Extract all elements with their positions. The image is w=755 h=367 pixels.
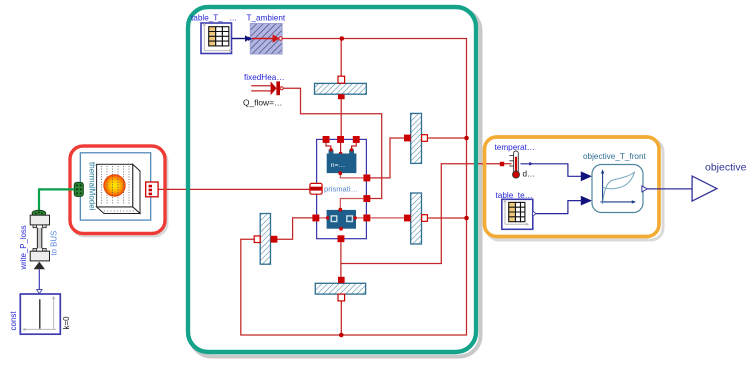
svg-text:write_P_loss: write_P_loss (19, 225, 28, 270)
svg-text:n=…: n=… (331, 162, 346, 169)
svg-text:objective_T_front: objective_T_front (583, 152, 647, 161)
svg-text:to BUS: to BUS (50, 231, 59, 256)
svg-text:Q_flow=…: Q_flow=… (243, 98, 282, 108)
svg-text:objective: objective (705, 162, 747, 174)
svg-text:const: const (9, 311, 18, 331)
svg-text:prismati…: prismati… (324, 185, 358, 194)
svg-text:table_T_ ...: table_T_ ... (191, 14, 237, 23)
svg-text:fixedHea…: fixedHea… (244, 73, 285, 82)
svg-text:k=0: k=0 (62, 316, 71, 330)
svg-text:thermalModel: thermalModel (88, 162, 97, 211)
svg-text:temperat…: temperat… (495, 143, 536, 152)
svg-text:d…: d… (523, 170, 536, 179)
svg-text:T_ambient: T_ambient (247, 14, 286, 23)
svg-text:table_te…: table_te… (496, 191, 533, 200)
